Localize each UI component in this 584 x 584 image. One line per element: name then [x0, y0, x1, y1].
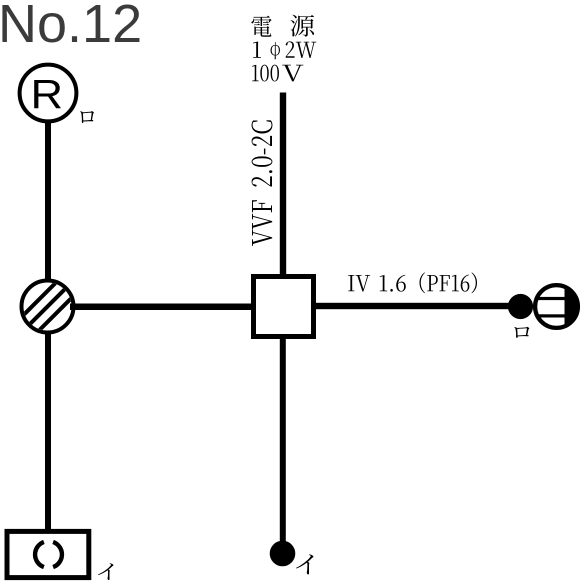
power source label 100V: [252, 65, 303, 82]
ceiling rose 角形引掛シーリング: [7, 531, 89, 577]
outlet コンセント symbol: [535, 285, 578, 328]
conduit label IV 1.6 （PF16）: [348, 272, 477, 293]
wire: outlet box down to switch: [280, 336, 286, 544]
VVF joint box (hatched circle): [17, 276, 78, 337]
power source label 電源: [251, 15, 314, 37]
svg-text:No.12: No.12: [0, 0, 142, 54]
cable label VVF 2.0-2C (rotated): [252, 120, 273, 246]
outlet box (アウトレットボックス): [254, 277, 314, 337]
wire: joint box down to ceiling light: [45, 332, 51, 530]
connector dot at outlet: [508, 294, 533, 319]
label イ (ceiling light): [98, 563, 113, 580]
wire: outlet box to joint box (horizontal): [70, 304, 251, 311]
switch イ (black dot): [270, 541, 296, 567]
label イ (switch): [296, 554, 313, 574]
svg-text:R: R: [31, 72, 64, 117]
label ロ (outlet): [514, 327, 529, 338]
wire: outlet box to outlet (IV1.6 in PF16): [316, 303, 512, 309]
wire: joint box up to lamp receptacle: [45, 121, 51, 281]
label ロ (lamp receptacle): [80, 111, 94, 123]
wire: power feed vertical (VVF 2.0-2C): [280, 93, 286, 277]
lamp receptacle R: [20, 65, 77, 122]
power source label 1φ2W: [253, 41, 316, 59]
